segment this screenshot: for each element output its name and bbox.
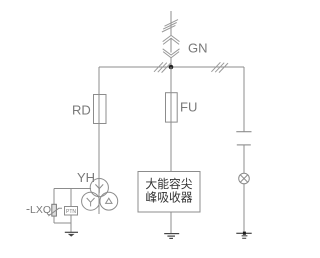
hatch marks on bus (left of junction): [154, 62, 171, 72]
wire: left drop to arrester: [53, 189, 55, 205]
fuse RD: [94, 95, 107, 124]
arrester LXQ body: [52, 204, 57, 216]
wire: capacitor to lamp: [243, 145, 245, 173]
delta symbol in bottom-right winding: [106, 198, 112, 203]
ground (right branch): [236, 233, 251, 238]
box PTN: [65, 207, 78, 216]
wire: arrester to bottom: [53, 216, 55, 224]
wire: horizontal to LXQ sub-circuit: [54, 188, 91, 190]
wire: center branch vertical: [170, 67, 172, 172]
absorber box: [138, 172, 200, 213]
wire: box to ground: [170, 212, 172, 233]
wire: horizontal bus: [99, 66, 244, 68]
svg-text:PTN: PTN: [66, 209, 76, 215]
Y symbol in top winding: [95, 184, 103, 192]
fuse FU: [166, 93, 178, 122]
wire: lamp to ground: [243, 184, 245, 234]
svg-text:YH: YH: [77, 170, 95, 185]
lamp symbol: [239, 173, 250, 184]
transformer YH top winding: [90, 179, 108, 197]
svg-text:RD: RD: [72, 103, 91, 118]
junction dot at bus / GN: [169, 65, 174, 70]
disconnector GN chevrons (lower pair, apex down): [163, 49, 180, 58]
terminal dot (right ground): [243, 232, 246, 235]
arrester LXQ diagonal: [48, 208, 62, 216]
disconnector GN chevrons (upper pair, apex up): [163, 35, 180, 44]
svg-text:大能容尖: 大能容尖: [145, 177, 192, 191]
hatch marks on bus (right section): [211, 62, 228, 72]
ground (left sub-circuit): [65, 232, 78, 236]
wire: PT box to ground: [70, 215, 72, 232]
dash before label: [27, 209, 30, 211]
wire: left branch vertical: [98, 67, 100, 214]
wire: right branch vertical (top): [243, 67, 245, 132]
wire: GN top lead: [170, 11, 172, 36]
wire: GN to bus: [170, 58, 172, 68]
wire between chevrons: [170, 38, 172, 53]
wire: bottom connector: [54, 222, 71, 224]
svg-text:LXQ: LXQ: [30, 204, 51, 216]
svg-text:峰吸收器: 峰吸收器: [145, 191, 192, 205]
transformer YH bottom-left winding: [82, 192, 100, 210]
capacitor top plate: [236, 131, 251, 133]
transformer YH bottom-right winding: [100, 192, 118, 210]
wire: middle drop to PT box: [70, 189, 72, 207]
svg-text:FU: FU: [180, 99, 197, 114]
ground (center branch): [164, 234, 179, 239]
Y symbol in bottom-left winding: [87, 198, 95, 206]
capacitor bottom plate: [237, 144, 251, 146]
hatch marks on GN top lead: [162, 20, 178, 32]
svg-text:GN: GN: [188, 41, 208, 56]
